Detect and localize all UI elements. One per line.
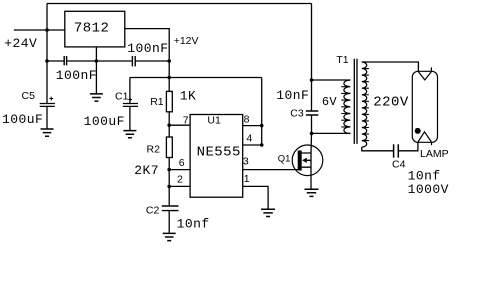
lamp bottom electrode caret — [418, 132, 432, 142]
svg-text:1: 1 — [244, 173, 250, 185]
node junction 7812 gnd on rail — [95, 59, 99, 63]
wire 7812 ground pin — [95, 47, 97, 94]
svg-text:8: 8 — [244, 114, 250, 126]
node junction 12V at 169 — [167, 59, 171, 63]
svg-text:2K7: 2K7 — [134, 163, 159, 178]
capacitor 100nF second (bars) — [132, 56, 135, 66]
svg-text:C1: C1 — [115, 90, 129, 102]
wire R1 top lead — [168, 78, 170, 92]
svg-text:R1: R1 — [150, 96, 164, 108]
wire pin 8 — [243, 125, 262, 127]
node junction primary bottom — [310, 132, 314, 136]
wire +24V input — [14, 29, 65, 31]
wire C1 branch down — [129, 78, 131, 104]
node junction pin7 — [167, 123, 171, 127]
wire pin6 node to pin2 node — [168, 170, 170, 187]
svg-text:C3: C3 — [290, 107, 304, 119]
lamp tube outline — [412, 71, 437, 142]
svg-text:R2: R2 — [147, 144, 161, 156]
regulator U 7812 box — [65, 11, 125, 47]
transformer core lines — [354, 59, 357, 144]
wire pin 1 — [243, 186, 268, 209]
lamp inner dot — [415, 128, 421, 134]
resistor R1 — [166, 91, 172, 111]
wire R2 top lead — [168, 125, 170, 137]
wire secondary bottom stub — [362, 147, 394, 151]
svg-text:100uF: 100uF — [84, 114, 125, 129]
IC U1 NE555 box — [190, 114, 243, 197]
ground under 7812 — [90, 94, 103, 101]
svg-text:7812: 7812 — [74, 21, 109, 37]
wire pin 2 — [169, 185, 190, 187]
node junction pin2 — [167, 185, 171, 189]
svg-text:7: 7 — [183, 114, 189, 126]
svg-text:6: 6 — [179, 157, 185, 169]
inductor transformer primary winding — [344, 80, 351, 134]
wire pin 7 — [169, 124, 190, 126]
svg-text:C4: C4 — [392, 159, 406, 171]
svg-text:U1: U1 — [207, 114, 221, 126]
svg-text:100nF: 100nF — [127, 41, 168, 56]
wire 12V vertical 61 to 77.5 — [168, 61, 170, 78]
svg-text:Q1: Q1 — [278, 153, 291, 164]
ground under Q1 — [305, 189, 319, 196]
node junction left on 100nF rail — [45, 59, 49, 63]
svg-text:C5: C5 — [22, 90, 36, 102]
wire pin 4 — [243, 144, 262, 146]
svg-text:100uF: 100uF — [2, 112, 43, 127]
wire right rail from top to primary top — [311, 4, 313, 81]
svg-text:10nf: 10nf — [177, 216, 210, 231]
wire R1 bottom lead to pin7 node — [168, 112, 170, 125]
svg-text:LAMP: LAMP — [420, 148, 449, 160]
svg-text:+12V: +12V — [174, 35, 199, 47]
node junction pin6 — [167, 168, 171, 172]
svg-text:6V: 6V — [322, 95, 338, 109]
wire C3 lower lead — [311, 115, 313, 133]
ground pin1 — [261, 209, 275, 216]
node junction +24V — [45, 28, 49, 32]
svg-text:100nF: 100nF — [56, 68, 97, 83]
wire 12V distribution rail — [130, 77, 262, 79]
node junction primary top — [310, 78, 314, 82]
capacitor C1 electrolytic plates — [123, 104, 138, 107]
wire C5 to ground — [46, 106, 48, 129]
capacitor C2 plates — [162, 206, 179, 211]
lamp bottom right pin stub — [431, 142, 433, 145]
svg-text:+24V: +24V — [4, 36, 37, 51]
svg-text:4: 4 — [246, 132, 252, 144]
svg-text:1K: 1K — [180, 89, 197, 104]
svg-text:C2: C2 — [146, 204, 160, 216]
svg-text:2: 2 — [177, 174, 183, 186]
wire pin2 node down to C2 — [168, 186, 170, 206]
capacitor C4 plates — [394, 144, 399, 157]
lamp top right pin stub — [430, 67, 432, 71]
wire 7812 output right — [125, 29, 169, 61]
wire primary bottom lead — [312, 132, 351, 134]
node junction pin8 — [260, 124, 264, 128]
capacitor C5 electrolytic plates — [40, 104, 55, 107]
svg-text:10nF: 10nF — [276, 88, 309, 103]
inductor transformer secondary winding — [362, 62, 367, 147]
ground under C1 — [123, 131, 136, 138]
transistor Q1 mosfet — [292, 145, 323, 176]
resistor R2 — [166, 137, 172, 158]
lamp top electrode V — [418, 72, 431, 80]
svg-text:1000V: 1000V — [408, 182, 449, 197]
wire C4 to lamp bottom pin — [398, 142, 418, 151]
wire C2 to ground — [168, 211, 170, 234]
node junction pin4 — [260, 143, 264, 147]
wire left vertical from top rail down to C5 — [46, 4, 48, 104]
svg-text:3: 3 — [243, 155, 249, 167]
wire primary top lead — [312, 79, 351, 81]
wire R2 bottom lead to pin6 node — [168, 158, 170, 170]
wire 12V rail down to pins 8 and 4 — [261, 78, 263, 146]
wire top rail — [47, 3, 312, 5]
wire C1 to ground — [129, 106, 131, 130]
wire secondary top lead to lamp — [362, 62, 419, 72]
wire Q1 source to ground — [310, 167, 312, 189]
wire C3 upper lead — [311, 80, 313, 111]
wire 100nF rail horizontal — [47, 60, 169, 62]
node junction 12V rail — [167, 76, 171, 80]
capacitor 100nF first (bars) — [64, 56, 66, 65]
polarity plus C5 — [49, 97, 53, 101]
wire drain from node down into Q1 — [310, 133, 313, 153]
wire pin 6 — [169, 169, 190, 171]
svg-text:220V: 220V — [373, 95, 409, 111]
svg-text:T1: T1 — [336, 54, 348, 66]
wire pin 3 to gate — [243, 169, 298, 171]
svg-text:NE555: NE555 — [197, 145, 241, 161]
ground under C2 — [163, 233, 176, 240]
ground under C5 — [41, 129, 54, 136]
polarity plus C1 — [128, 98, 132, 102]
capacitor C3 plates — [306, 111, 318, 115]
